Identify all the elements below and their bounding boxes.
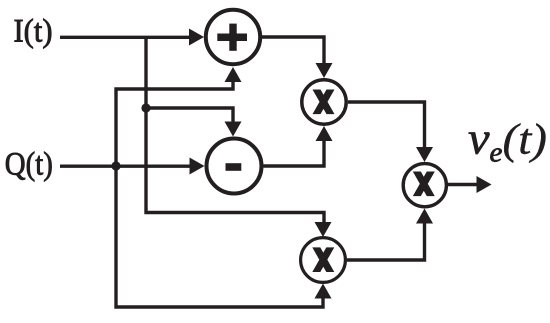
wire I(t) to adder [60,36,192,39]
svg-text:e: e [490,137,503,169]
arrowhead into subtractor left [190,158,205,175]
arrowhead into adder bottom [225,67,242,82]
wire M3 output [448,183,479,186]
adder circle [206,10,260,64]
subtractor circle [207,139,262,194]
wire subtractor output to multiplier M1 bottom [264,139,325,166]
wire M1 output to M3 top [348,102,425,149]
wire M2 output to M3 bottom [347,221,425,260]
junction dot I branch [141,103,150,112]
minus sign [226,163,242,171]
plus sign [217,24,247,51]
arrowhead into M3 bottom [416,209,433,224]
wire Q up branch to adder bottom [116,80,233,166]
arrowhead into M2 bottom [315,284,332,299]
multiplier M2 circle [301,238,346,283]
svg-text:Q(t): Q(t) [5,147,53,183]
svg-text:I(t): I(t) [14,14,53,50]
wire I branch vertical to bottom multiplier [146,37,324,226]
arrowhead into adder left [189,29,204,46]
wire I tap to subtractor top [146,108,233,124]
svg-text:v: v [468,114,490,164]
multiplier M1 X glyph [313,90,335,115]
svg-text:(t): (t) [503,117,548,164]
multiplier M1 circle [302,80,346,124]
arrowhead into M1 bottom [316,126,333,141]
arrowhead into subtractor top [225,122,242,137]
wire Q(t) to subtractor [60,164,192,167]
arrowhead output [477,176,492,193]
arrowhead into M1 top [316,63,333,78]
multiplier M3 X glyph [413,172,435,197]
wire adder output to multiplier M1 [262,37,324,66]
multiplier M3 circle [403,164,446,207]
junction dot Q branch [111,161,120,170]
arrowhead into M3 top [416,147,433,162]
arrowhead into M2 top [315,222,332,237]
multiplier M2 X glyph [312,247,334,272]
wire Q down branch to bottom multiplier [116,166,323,307]
